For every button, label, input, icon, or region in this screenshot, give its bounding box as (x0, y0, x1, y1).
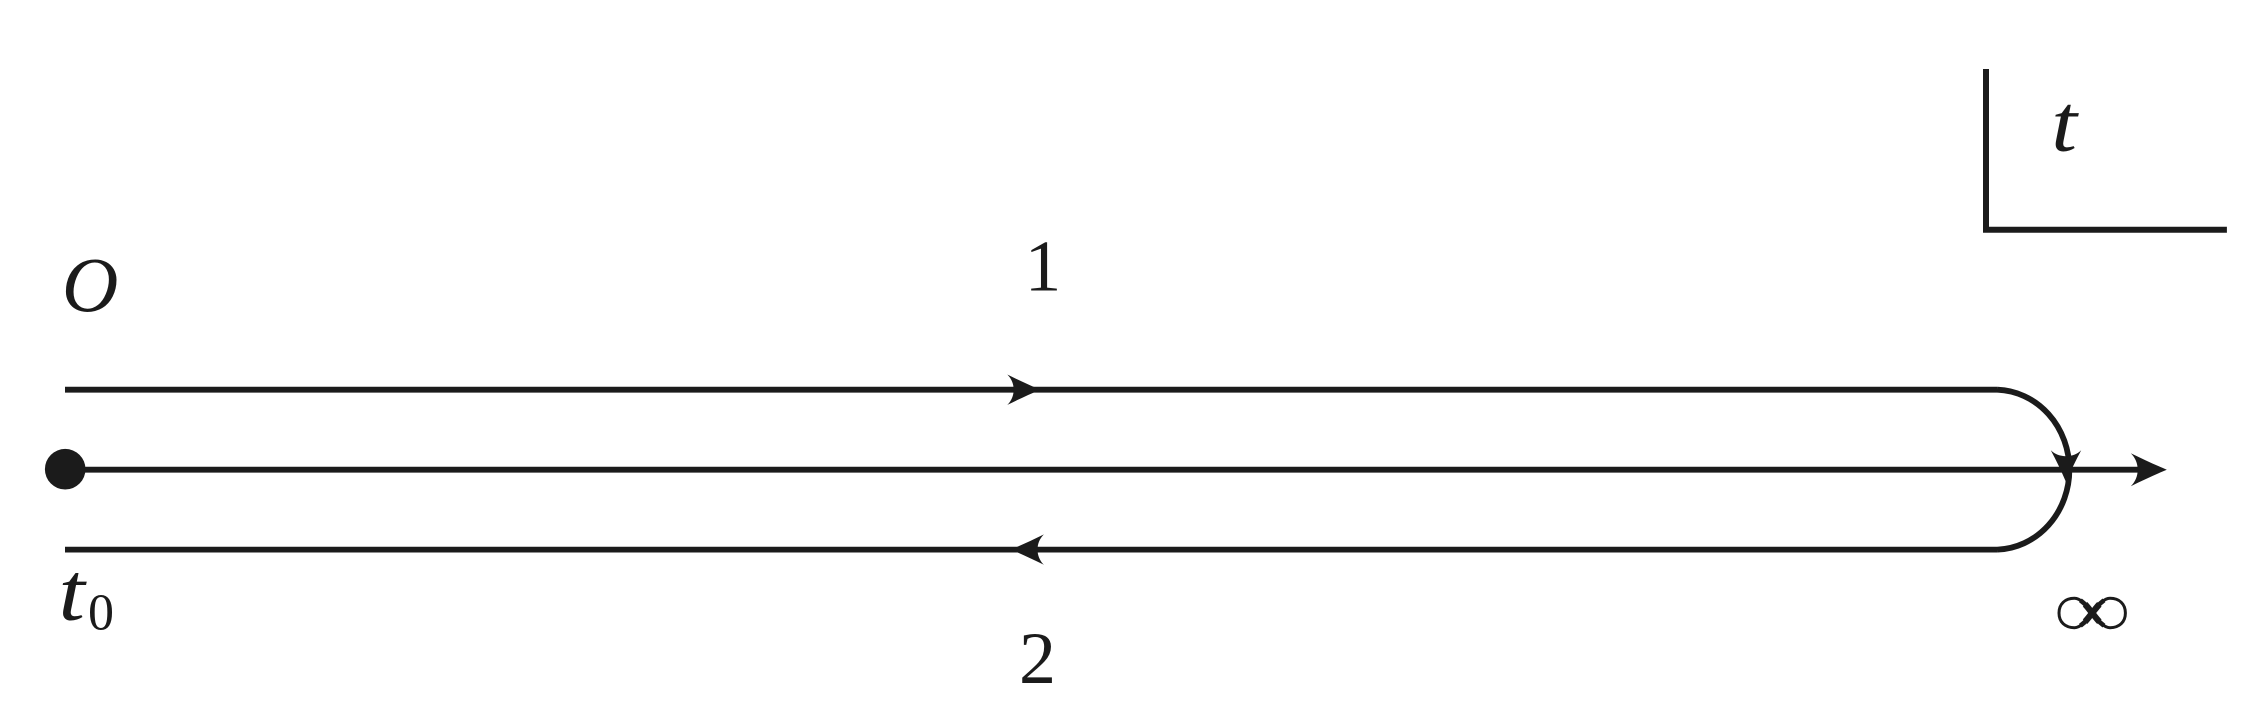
wire: contour lower branch C2 (y=549.6, x 65..1997.5) (65, 547, 1998, 553)
wire: real time axis through t0 (y=469.7) (65, 467, 2140, 473)
svg-text:0: 0 (88, 585, 114, 642)
svg-text:t: t (59, 547, 88, 638)
svg-text:t: t (2051, 77, 2080, 168)
wire: contour upper branch C1 (y=389.7, x 65..1997.5) (65, 387, 1998, 393)
svg-text:O: O (62, 241, 118, 328)
svg-text:1: 1 (1025, 226, 1062, 307)
arrowhead on upper branch (rightward) (1007, 375, 1040, 405)
wire: contour turning arc at t=infinity (1998, 390, 2070, 550)
arrowhead on time axis (rightward, at far right) (2131, 453, 2167, 486)
arrowhead on turning arc (downward) (2051, 450, 2081, 482)
svg-text:2: 2 (1019, 618, 1056, 700)
label infinity (2059, 598, 2125, 627)
arrowhead on lower branch (leftward) (1011, 534, 1044, 564)
axis corner marker (t axis inset, top right) (1986, 69, 2227, 230)
node: initial time t0 (filled dot) (45, 449, 86, 490)
